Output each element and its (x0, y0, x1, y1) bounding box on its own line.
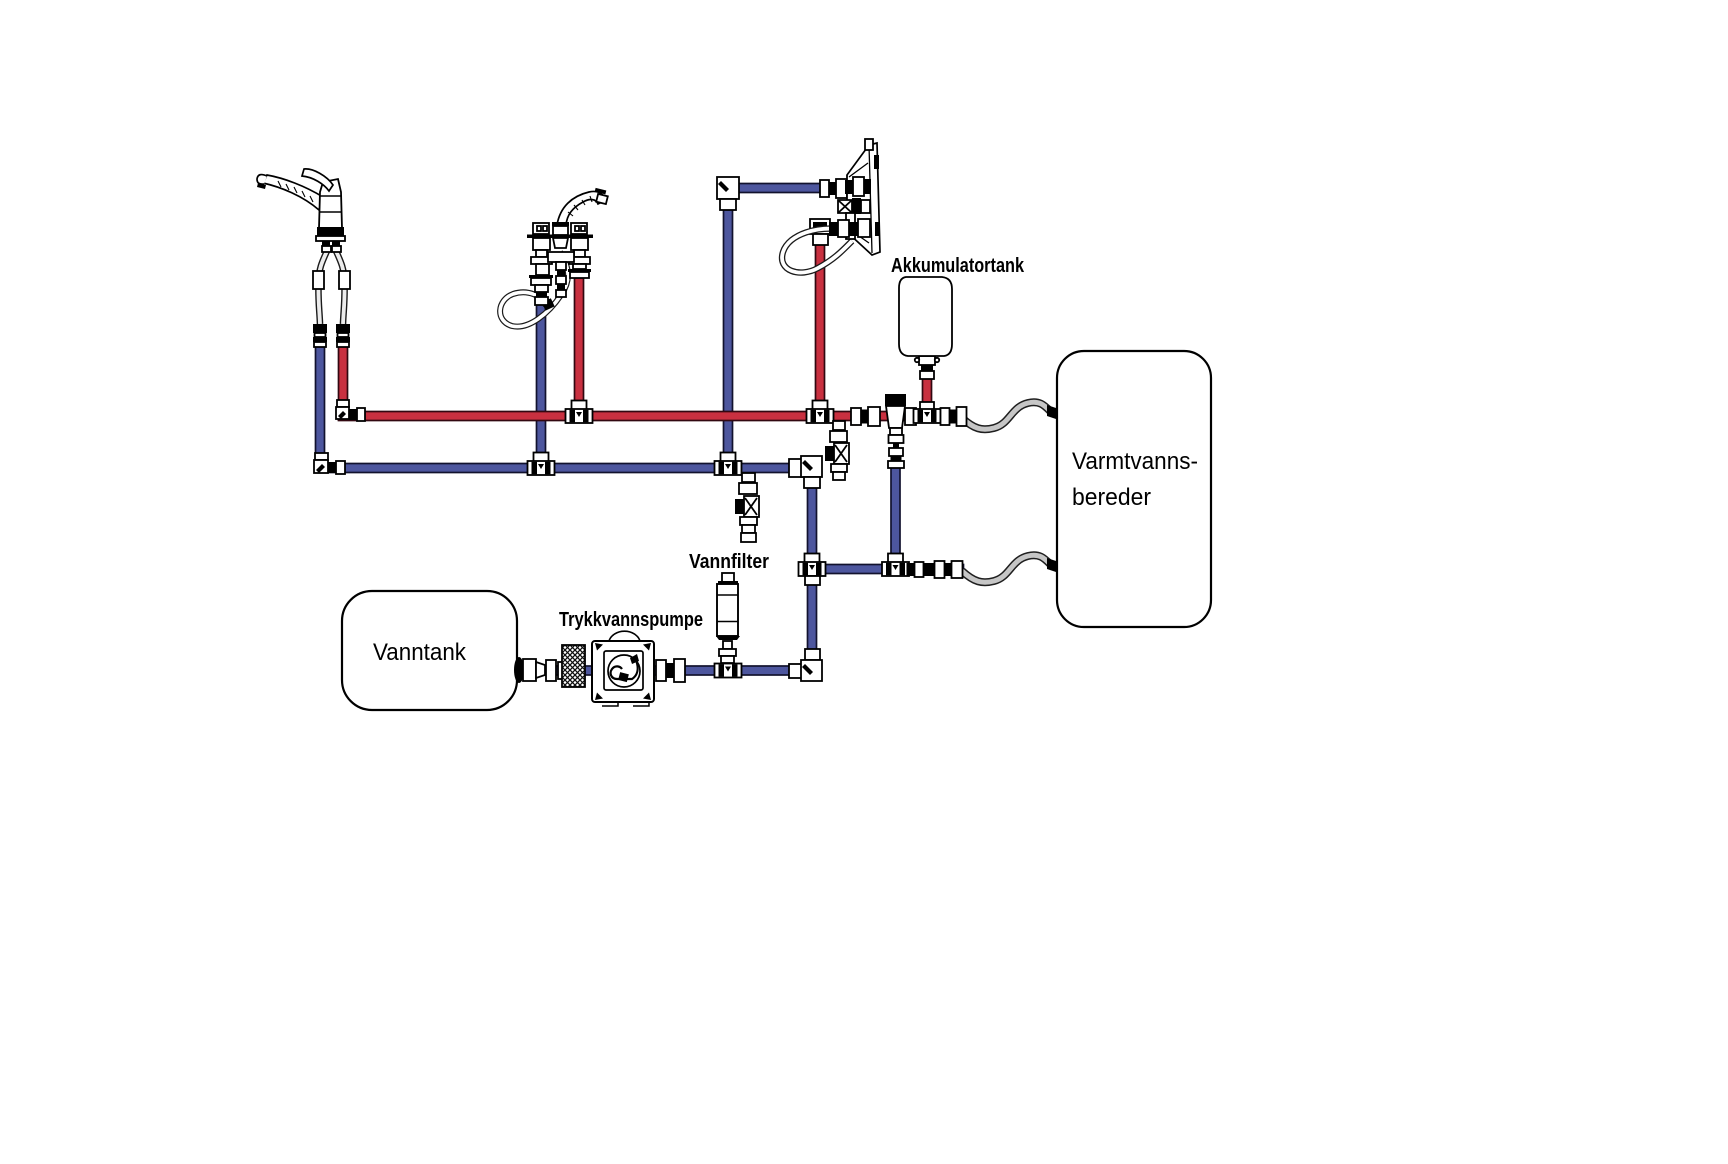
svg-text:Vannfilter: Vannfilter (689, 551, 769, 573)
hose: flexible to heater top (962, 402, 1056, 429)
fitting: tank outlet (514, 657, 545, 683)
hose: flexible to heater bottom (962, 555, 1056, 582)
wire: cold mid line to heater (808, 565, 964, 574)
elbow: cold main right corner (turn down) (789, 456, 822, 488)
left shank (533, 238, 550, 250)
elbow: pump line right corner (turn up) (789, 649, 822, 681)
wire: cold main horizontal (316, 464, 817, 473)
wire: accumulator drop (923, 377, 932, 418)
spray hose head (542, 298, 555, 310)
svg-text:bereder: bereder (1072, 484, 1151, 511)
tee: hot main x shower drop (807, 401, 834, 424)
spray hose loop (500, 252, 568, 327)
filter: Vannfilter (715, 573, 742, 678)
svg-text:Varmtvanns-: Varmtvanns- (1072, 448, 1198, 475)
tee: cold drop x mid line (799, 554, 826, 586)
wall plate (847, 143, 880, 255)
valve: drain valve below cold main (735, 473, 759, 542)
valve: drain valve below hot main (825, 421, 849, 480)
strainer: inlet strainer (562, 645, 585, 687)
fitting: shower cold inlet unions (820, 179, 847, 198)
fitting: pump outlet unions (656, 659, 685, 682)
wire: hot drop shower (816, 242, 825, 418)
wire: cold drop middle faucet (537, 303, 546, 466)
hose joint right (339, 271, 350, 289)
elbow: shower hot connection (810, 219, 830, 245)
tee: mid line x check valve drop (882, 554, 963, 579)
hose joint left (313, 271, 324, 289)
wire: pump line (540, 666, 814, 675)
elbow: hot main left corner (336, 400, 365, 421)
faucet: left single-lever mixer (257, 169, 350, 347)
fitting: hot main unions before check valve (851, 407, 880, 426)
hot row: elbow and unions (829, 222, 838, 236)
center spout base (552, 222, 569, 226)
tee: cold main x middle faucet drop (528, 453, 555, 476)
tee: hot main x middle faucet drop (566, 401, 593, 424)
wire: cold pipe left faucet drop (316, 344, 325, 470)
faucet: middle two-handle mixer (500, 188, 608, 327)
tee: hot main x accumulator drop (914, 402, 967, 426)
right handle (571, 223, 587, 234)
wire: check valve drop (891, 462, 900, 571)
spout swan neck (557, 191, 604, 225)
tee: cold main x shower riser (715, 453, 742, 476)
svg-text:Trykkvannspumpe: Trykkvannspumpe (559, 609, 703, 631)
center shank + crossbar (553, 238, 568, 248)
deck bar (527, 235, 593, 239)
valve: check valve on hot line (885, 394, 916, 468)
mixer hardware rows (845, 180, 853, 194)
wire: hot pipe left faucet drop (339, 344, 348, 420)
flex hose hot (right) (336, 251, 345, 324)
svg-text:Vanntank: Vanntank (373, 639, 467, 666)
spout curved arm (263, 175, 323, 210)
fitting: accumulator neck (915, 356, 939, 379)
tee: pump line x filter (715, 664, 742, 678)
left handle (533, 223, 549, 234)
flex hose cold (left) (318, 251, 327, 324)
tank: Akkumulatortank body (899, 277, 952, 356)
spout tip (595, 188, 607, 195)
faucet body (319, 179, 342, 228)
hose end connector cold (313, 324, 327, 333)
tank: Varmtvannsbereder (1057, 351, 1211, 627)
shower: wall plate mixer (782, 139, 880, 273)
wire: cold top horizontal to shower (724, 184, 840, 193)
tank: Vanntank (342, 591, 517, 710)
lever handle (302, 169, 333, 191)
wire: cold riser shower (724, 186, 733, 466)
wire: hot drop middle faucet (575, 278, 584, 418)
elbow: cold main left corner (314, 453, 345, 474)
hose end connector hot (336, 324, 350, 333)
right shank (571, 238, 588, 250)
pump: Trykkvannspumpe (592, 631, 654, 706)
base black band (317, 227, 344, 236)
wire: cold right drop (808, 466, 817, 673)
elbow: shower riser top corner (717, 177, 739, 210)
hand shower hose loop (782, 229, 852, 273)
wire: hot main horizontal (339, 412, 941, 421)
svg-text:Akkumulatortank: Akkumulatortank (891, 255, 1025, 277)
fitting: inlet coupling (546, 660, 567, 681)
